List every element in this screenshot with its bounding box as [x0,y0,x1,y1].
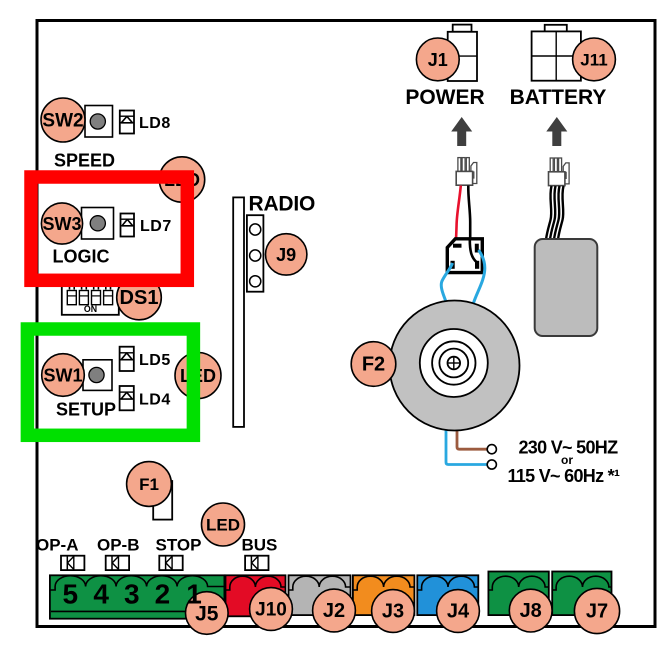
svg-text:OP-B: OP-B [97,536,140,555]
svg-text:SW3: SW3 [42,214,81,234]
callout J4 [437,590,480,633]
svg-text:LD8: LD8 [139,115,171,132]
wire red (power) [456,186,461,246]
svg-text:DS1: DS1 [120,287,159,309]
pushbutton SW3 [82,208,114,240]
svg-text:BATTERY: BATTERY [510,86,607,109]
svg-text:RADIO: RADIO [249,193,316,216]
LED LD5 [120,347,134,371]
LED icon OP-A [61,556,84,570]
plug (battery) [549,158,570,186]
svg-text:POWER: POWER [405,86,484,109]
callout J2 [313,589,356,632]
callout LED middle (under green frame) [175,353,221,399]
svg-text:LD5: LD5 [139,352,171,369]
callout DS1 [117,275,162,320]
svg-text:or: or [561,453,573,467]
svg-text:SW2: SW2 [42,111,83,132]
DIP switch DS1 [62,280,119,315]
LED icon OP-B [106,556,129,570]
terminal circle (115V) [487,460,496,469]
pushbutton SW2 [85,106,113,138]
callout SW2 [41,98,85,142]
svg-text:SW1: SW1 [43,365,82,385]
callout J1 [416,38,459,81]
svg-text:LD4: LD4 [139,391,171,408]
svg-text:J8: J8 [520,600,542,622]
callout SW1 [42,354,85,397]
svg-text:J4: J4 [447,601,470,623]
svg-text:J7: J7 [586,601,608,623]
terminal block J8 (green) [488,572,548,616]
green frame (SETUP section) [27,329,193,435]
LED LD7 [121,214,135,237]
plug (power) [456,158,477,186]
svg-text:SPEED: SPEED [54,151,115,171]
wire blue left (rectifier to transformer) [441,263,452,303]
connector J1 [448,25,477,81]
svg-text:BUS: BUS [242,536,278,555]
terminal block J10 (red) [226,575,286,616]
terminal block J2 (gray) [289,575,351,615]
wire black (power) [468,186,470,241]
arrow (battery) [546,117,567,146]
arrow (power) [451,117,472,146]
wire blue (mains) [446,420,488,465]
terminal block J7 (green) [552,572,611,616]
callout J3 [372,590,415,633]
battery wires [546,186,564,240]
svg-text:J10: J10 [255,600,287,621]
svg-text:5: 5 [63,579,79,610]
antenna bar [233,197,244,427]
callout J8 [509,589,552,632]
callout J10 [250,588,293,631]
svg-text:J2: J2 [323,600,345,622]
svg-text:LOGIC: LOGIC [53,247,110,267]
terminal circle (230V) [487,445,496,454]
svg-text:4: 4 [93,579,109,610]
callout LED top (under red frame) [159,157,204,202]
svg-text:J5: J5 [195,603,219,626]
red frame (LOGIC section) [31,177,187,280]
svg-text:J11: J11 [580,51,607,70]
svg-text:2: 2 [155,579,171,610]
connector J9 [247,215,264,292]
callout J5 [186,579,229,635]
callout LED bottom [202,503,245,546]
callout J7 [574,588,619,633]
svg-text:ON: ON [84,304,97,314]
wire blue right (rectifier to transformer) [474,250,485,303]
terminal block J3 (orange) [353,575,415,615]
rectifier block [447,239,482,273]
callout J11 [573,38,616,81]
svg-text:LED: LED [206,516,240,535]
svg-text:J3: J3 [382,601,404,623]
callout SW3 [41,203,82,244]
svg-text:J9: J9 [276,245,296,265]
svg-text:OP-A: OP-A [36,536,79,555]
wire brown (mains) [457,420,488,449]
svg-text:F1: F1 [139,475,159,494]
svg-text:F2: F2 [362,354,385,376]
callout F1 [127,462,172,507]
svg-text:J1: J1 [428,50,448,70]
terminal block J4 (blue) [417,575,478,615]
LED LD4 [120,386,134,410]
battery [535,239,598,336]
LED icon BUS [245,556,268,570]
callout F2 [351,342,396,387]
LED LD8 [120,111,134,134]
terminal block J5 (green) [50,575,225,618]
LED icon STOP [159,556,182,570]
transformer [390,301,520,431]
svg-text:3: 3 [124,579,140,610]
pushbutton SW1 [83,360,112,391]
svg-text:LD7: LD7 [140,218,172,235]
callout J9 [266,234,307,275]
svg-text:115 V~ 60Hz *¹: 115 V~ 60Hz *¹ [508,466,620,486]
svg-text:SETUP: SETUP [56,400,116,420]
connector J11 [532,25,581,81]
fuse F1 [153,481,172,520]
svg-text:STOP: STOP [156,536,202,555]
